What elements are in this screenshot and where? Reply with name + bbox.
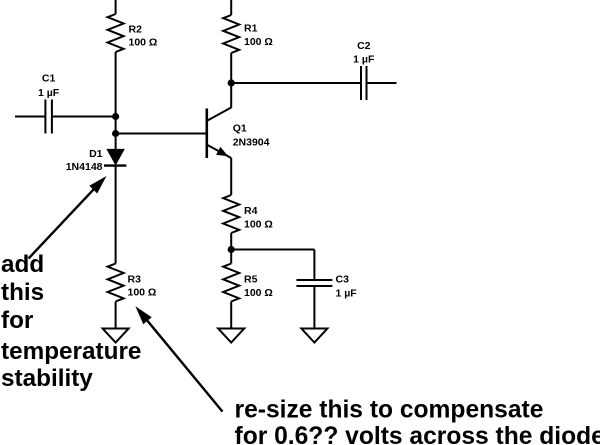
svg-text:this: this — [1, 279, 44, 306]
svg-text:100 Ω: 100 Ω — [244, 36, 273, 48]
svg-text:add: add — [1, 251, 44, 278]
svg-text:R5: R5 — [244, 274, 258, 286]
svg-text:100 Ω: 100 Ω — [244, 287, 273, 299]
svg-text:Q1: Q1 — [233, 123, 247, 135]
svg-text:C1: C1 — [42, 73, 56, 85]
svg-text:R1: R1 — [244, 23, 258, 35]
svg-text:C3: C3 — [336, 274, 350, 286]
svg-text:R2: R2 — [129, 23, 143, 35]
svg-text:re-size this to compensate: re-size this to compensate — [235, 397, 544, 424]
svg-text:1 µF: 1 µF — [336, 288, 358, 300]
svg-text:2N3904: 2N3904 — [233, 137, 270, 149]
svg-text:temperature: temperature — [1, 338, 141, 365]
svg-text:100 Ω: 100 Ω — [128, 286, 157, 298]
svg-text:1 µF: 1 µF — [353, 54, 375, 66]
svg-text:100 Ω: 100 Ω — [129, 36, 158, 48]
svg-text:for 0.6?? volts across the dio: for 0.6?? volts across the diode — [235, 423, 600, 445]
svg-text:R4: R4 — [244, 205, 258, 217]
svg-text:100 Ω: 100 Ω — [244, 218, 273, 230]
svg-text:for: for — [1, 307, 34, 334]
svg-text:C2: C2 — [357, 40, 371, 52]
svg-text:R3: R3 — [128, 273, 142, 285]
svg-text:D1: D1 — [89, 148, 103, 160]
svg-text:stability: stability — [1, 365, 93, 392]
svg-text:1N4148: 1N4148 — [66, 161, 103, 173]
svg-text:1 µF: 1 µF — [38, 87, 60, 99]
